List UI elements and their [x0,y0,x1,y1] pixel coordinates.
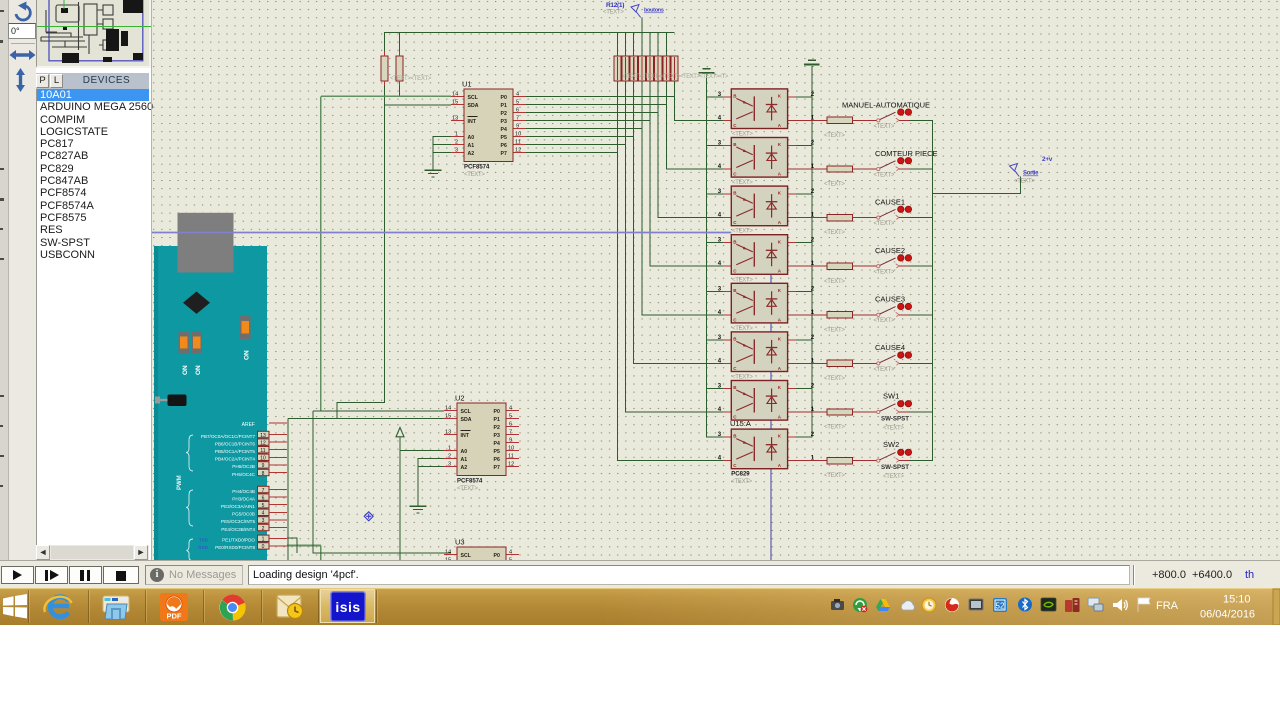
wire SDA net [288,105,451,560]
wire pullup R2 to SCL [399,81,401,96]
mini parts [41,2,113,54]
ground right of optos [804,60,820,64]
grid dots [152,0,1280,560]
explorer folder icon [102,594,130,620]
power arrow [396,428,404,437]
svg-text:PB7/OC0A/OC1C/PCINT7: PB7/OC0A/OC1C/PCINT7 [201,434,256,439]
svg-text:<TEXT>: <TEXT> [874,221,895,227]
optocoupler U11 [718,381,815,421]
arduino pin number boxes and stubs [258,431,288,550]
edit field [248,565,1130,585]
svg-text:PE4/OC3B/INT4: PE4/OC3B/INT4 [221,527,255,532]
tray [826,588,1280,625]
optocoupler U9 [718,283,815,323]
svg-text:6: 6 [262,495,265,501]
selected net blue vertical segments [770,275,772,561]
svg-text:FRA: FRA [1156,600,1179,612]
tray icon usb red [1065,598,1080,612]
svg-text:PG5/OC0B: PG5/OC0B [232,512,255,517]
svg-text:AREF: AREF [242,422,255,428]
svg-text:CAUSE4: CAUSE4 [875,343,905,352]
svg-text:<TEXT>: <TEXT> [732,132,753,138]
ground left of optos [699,69,715,73]
wire U2 A1 A2 to ground [418,459,444,506]
svg-text:U3: U3 [455,538,465,547]
svg-text:ON: ON [195,365,202,375]
svg-text:<TEXT>: <TEXT> [732,326,753,332]
svg-text:Sortie: Sortie [1023,171,1039,177]
svg-text:3: 3 [262,518,265,524]
wire U2 A0 power [400,438,444,561]
tray icon bluetooth [1018,598,1032,612]
resistor bank RN1 (8 resistors) [614,56,678,81]
show desktop [1273,589,1280,625]
svg-text:<TEXT>: <TEXT> [874,270,895,276]
svg-text:PE0/RXD0/PCINT8: PE0/RXD0/PCINT8 [215,545,255,550]
svg-text:1: 1 [262,537,265,543]
arduino digital pin rows [198,434,256,550]
switch row 7 SW1 [788,392,933,432]
svg-text:7: 7 [262,488,265,494]
svg-text:<TEXT>: <TEXT> [731,479,752,485]
led ON [240,316,251,340]
isis active app [320,589,375,623]
svg-text:52: 52 [996,602,1005,611]
svg-text:PB6/OC1B/PCINT6: PB6/OC1B/PCINT6 [215,441,256,446]
resistor bank pin wires (red) [617,57,674,80]
switch row 3 CAUSE1 [788,198,933,237]
wire U1 P0-P7 to resistor bank [526,97,674,153]
pullup resistor pin stubs [385,52,400,86]
svg-text:06/04/2016: 06/04/2016 [1200,609,1255,621]
green net lines [37,26,151,28]
svg-text:R12(1): R12(1) [606,2,624,9]
taskbar [0,588,1280,625]
svg-text:ON: ON [244,350,251,360]
optocoupler U7 [718,186,815,226]
svg-text:PCF8574: PCF8574 [457,479,483,485]
svg-text:PE3/OC3A/AIN1: PE3/OC3A/AIN1 [221,504,255,509]
tray icon speaker [1113,599,1127,611]
svg-text:SW-SPST: SW-SPST [881,416,909,423]
led L [179,331,190,354]
origin marker blue diamond [364,512,373,521]
svg-text:<TEXT>: <TEXT> [732,375,753,381]
wire opto emitter rail (right) [796,66,812,437]
svg-text:U2: U2 [455,394,465,403]
status bar [0,560,1280,588]
wire U2 SCL branch [313,411,451,553]
message panel [145,565,243,585]
svg-text:2: 2 [262,526,265,532]
svg-text:<TEXT>: <TEXT> [732,277,753,283]
mirror horizontal icon [12,53,33,56]
svg-text:0: 0 [262,544,265,550]
wire switch common bus [932,120,934,460]
svg-text:SW1: SW1 [883,392,899,401]
led TX [192,331,203,354]
svg-text:TXD: TXD [199,538,209,543]
svg-text:CAUSE1: CAUSE1 [875,198,905,207]
svg-text:PC829: PC829 [731,472,750,478]
svg-text:<TEXT>: <TEXT> [874,172,895,178]
svg-text:5: 5 [262,503,265,509]
svg-text:SW-SPST: SW-SPST [881,464,909,471]
svg-text:PB4/OC2A/PCINT4: PB4/OC2A/PCINT4 [215,457,256,462]
svg-text:12: 12 [260,440,266,446]
svg-text:<TEXT>: <TEXT> [874,367,895,373]
viewport rect [49,0,143,61]
switch row 6 CAUSE4 [788,343,933,382]
outlook icon [276,594,304,620]
tray icon onedrive [901,601,914,610]
svg-text:9: 9 [262,463,265,469]
svg-text:<TEXT>: <TEXT> [883,426,904,432]
edit window border [151,0,152,560]
usb connector [178,213,234,273]
device header [36,73,149,89]
svg-text:ON: ON [182,365,189,375]
overview / preview window [36,0,151,68]
svg-text:MANUEL-AUTOMATIQUE: MANUEL-AUTOMATIQUE [842,101,930,110]
svg-text:15:10: 15:10 [1223,594,1251,606]
schematic editing window [152,0,1280,560]
svg-text:<TEXT>: <TEXT> [732,180,753,186]
tray icon gdrive [876,599,890,611]
svg-text:11: 11 [260,448,265,454]
mirror vertical icon [19,72,22,88]
foxit pdf icon [160,593,188,621]
tray icon flag [1138,598,1150,612]
svg-text:<TEXT>: <TEXT> [883,474,904,480]
svg-text:4: 4 [262,511,265,517]
svg-text:<TEXT>: <TEXT> [732,229,753,235]
svg-text:CAUSE3: CAUSE3 [875,295,905,304]
svg-text:PH6/OC2B: PH6/OC2B [232,464,255,469]
switch row 8 SW2 [788,440,933,480]
svg-text:boutons: boutons [644,8,664,14]
svg-text:2+v: 2+v [1042,156,1053,163]
switch row 1 MANUEL-AUTOMATIQUE [788,101,933,140]
svg-text:PWM: PWM [177,475,183,490]
device list [36,89,149,545]
svg-text:<TEXT><TEXT><TEXT><TEXT><TEXT>: <TEXT><TEXT><TEXT><TEXT><TEXT><T> [622,74,729,80]
angle box [8,23,36,39]
wire top bus [385,18,675,56]
svg-text:PE5/OC3C/INT5: PE5/OC3C/INT5 [221,519,255,524]
svg-text:PE1/TXD0/PDO: PE1/TXD0/PDO [222,538,255,543]
left toolbar strip [0,0,9,563]
wire bank verticals down to optocoupler anodes [617,81,723,461]
svg-text:<TEXT>: <TEXT> [874,124,895,130]
svg-text:CAUSE2: CAUSE2 [875,246,905,255]
svg-text:COMTEUR PIECE: COMTEUR PIECE [875,149,938,158]
selected net blue horizontal [152,232,731,234]
tray icon ime blue [993,598,1007,612]
rotate icon [16,2,30,20]
tray icon display [969,599,983,610]
IE icon [42,592,74,622]
svg-text:<TEXT>: <TEXT> [874,318,895,324]
svg-text:8: 8 [262,471,265,477]
wire SCL net (highlighted) [287,96,451,560]
tray icon network [1088,598,1103,611]
svg-text:<TEXT>: <TEXT> [603,10,624,16]
switch row 2 COMTEUR PIECE [788,149,938,188]
tray icon sync [853,598,867,612]
wire arduino TXD to U3 [287,538,297,553]
svg-text:<TEXT>: <TEXT> [1014,179,1035,185]
optocoupler U8 [718,235,815,275]
svg-text:U15:A: U15:A [730,419,751,428]
wire U1 A0 A1 A2 to ground [433,137,451,170]
svg-text:PB5/OC1A/PCINT5: PB5/OC1A/PCINT5 [215,449,256,454]
wire opto cathode rail (left) [707,74,724,438]
coords panel [1133,565,1135,585]
tray icon trend [945,598,959,612]
tray icon nvidia [1041,598,1056,611]
optocoupler U15 PC829 [718,429,815,469]
label TEXT under each opto [732,132,753,381]
svg-text:<TEXT><TEXT>: <TEXT><TEXT> [390,76,432,82]
diamond chip [183,292,210,314]
chrome icon [219,594,246,621]
svg-text:PH3/OC4A: PH3/OC4A [232,496,256,501]
wire to output probe [933,177,1021,194]
svg-text:<TEXT>: <TEXT> [457,486,478,492]
Arduino Mega 2560 board [154,213,287,560]
resistor RP1 pullup [381,56,388,81]
optocoupler U6 [718,138,815,178]
tray icon clock gold [922,598,936,612]
switch row 5 CAUSE3 [788,295,933,334]
svg-text:RXD: RXD [198,545,208,550]
optocoupler U5 [718,89,815,129]
reset button [155,397,160,404]
svg-text:SW2: SW2 [883,440,899,449]
svg-text:PDF: PDF [167,612,182,621]
probe Sortie [1010,164,1020,177]
ground U1 [424,170,441,177]
braces [186,435,193,471]
IC U1 PCF8574 [451,80,526,179]
IC U2 PCF8574 [444,394,519,493]
start button windows logo [2,593,28,619]
svg-text:U1: U1 [462,80,472,89]
ground U2 [409,506,426,513]
probe R12(1) top [631,5,641,18]
svg-text:PH5/OC4C: PH5/OC4C [232,472,256,477]
svg-text:PCF8574: PCF8574 [464,165,490,171]
wire pullup R1 to SDA [384,81,386,105]
IC U3 PCF8574 (clipped at bottom) [444,538,519,620]
svg-text:13: 13 [260,433,266,439]
svg-text:10: 10 [260,456,266,462]
tray icon camera [831,599,844,610]
svg-text:PH4/OC4B: PH4/OC4B [232,489,255,494]
svg-text:<TEXT>: <TEXT> [464,172,485,178]
resistor RP2 pullup [396,56,403,81]
optocoupler U10 [718,332,815,372]
switch row 4 CAUSE2 [788,246,933,285]
